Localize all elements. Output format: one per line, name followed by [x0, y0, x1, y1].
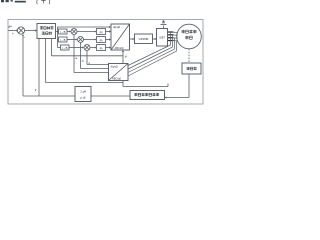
summing junction S2: [78, 37, 84, 43]
wire theta up to controller: [45, 39, 47, 83]
wire vertical branch bus: [57, 27, 59, 48]
wire stub row2: [58, 39, 59, 41]
wire third branch horizontal: [52, 55, 124, 57]
wire stub row3: [58, 47, 61, 49]
wire phase D IGBT to motor: [168, 40, 179, 42]
block function F3: [61, 45, 70, 50]
svg-text:dq/αβ: dq/αβ: [113, 25, 121, 29]
svg-text:PI: PI: [100, 47, 103, 51]
svg-text:(→B: (→B: [62, 46, 68, 50]
wire controller third branch: [51, 39, 53, 56]
wire PI3 to T1: [106, 47, 110, 49]
wire T2 out row b: [81, 68, 109, 70]
svg-text:dq/αβ: dq/αβ: [111, 65, 119, 69]
wire S2 to PI2: [84, 39, 96, 41]
block function F1: [59, 29, 68, 34]
block PI3: [97, 45, 106, 51]
wire speed feedback left: [23, 95, 75, 97]
wire branch speed to controller: [38, 39, 40, 97]
wire current tap 3: [128, 38, 175, 73]
wire S1 to PI1: [77, 31, 95, 33]
block transform T2 ABC to dq: [109, 64, 129, 81]
wire T2 out row c: [87, 64, 109, 66]
wire theta hook: [167, 84, 169, 87]
label phase D: [168, 40, 174, 41]
svg-text:PI: PI: [100, 31, 103, 35]
svg-text:p dt: p dt: [79, 96, 85, 100]
block IGBT inverter: [157, 29, 168, 47]
svg-text:ABC/αβ: ABC/αβ: [112, 77, 122, 81]
svg-text:ABC/αβ: ABC/αβ: [115, 46, 125, 50]
wire PI2 to T1: [106, 39, 110, 41]
wire speed feedback up to S0: [22, 36, 24, 96]
wire F1 to S1: [67, 31, 70, 33]
label phase B: [168, 34, 174, 35]
block PI2: [97, 37, 106, 43]
wire phase C IGBT to motor: [168, 37, 179, 39]
block CPWM: [135, 34, 153, 44]
wire T2 out row a: [74, 72, 109, 74]
svg-text:+: +: [12, 32, 14, 36]
wire CPWM to IGBT: [153, 38, 155, 40]
wire PI1 to T1: [106, 31, 110, 33]
wire theta below T2: [122, 81, 124, 87]
block transform T1 dq to ABC: [111, 24, 130, 50]
svg-text:(→B: (→B: [60, 30, 66, 34]
wire phase A IGBT to motor: [168, 31, 179, 33]
wire current tap 2: [128, 35, 173, 69]
block adaptive controller: [37, 24, 56, 39]
wire theta horizontal right: [123, 86, 168, 88]
dc supply symbol: [161, 21, 167, 29]
svg-text:−: −: [24, 36, 26, 40]
block position and speed detection: [130, 91, 165, 100]
wire encoder to detection: [166, 97, 189, 99]
wire S3 to PI3: [90, 47, 95, 49]
block PI1: [97, 29, 106, 35]
block function F2: [59, 37, 68, 42]
wire T1 to CPWM: [130, 38, 133, 40]
summing junction S1: [71, 29, 77, 35]
wire controller output to bus: [56, 31, 58, 33]
wire phase B IGBT to motor: [168, 34, 179, 36]
wire S3 feedback vertical: [86, 51, 88, 65]
wire theta into T1: [122, 52, 124, 64]
wire current tap 4: [128, 41, 177, 76]
label phase C: [168, 37, 174, 38]
wire current tap 1: [128, 32, 171, 65]
motor BLDC: [177, 24, 202, 49]
svg-text:1 dθ: 1 dθ: [80, 90, 86, 94]
svg-text:(→B: (→B: [60, 38, 66, 42]
summing junction S3: [84, 45, 90, 51]
wire S2 feedback vertical: [80, 43, 82, 69]
wire encoder down: [188, 74, 190, 98]
wire S1 feedback vertical: [73, 35, 75, 73]
wire theta horizontal left: [46, 82, 124, 84]
svg-text:CPWM: CPWM: [139, 37, 149, 41]
wire stub row1: [58, 31, 59, 33]
wire detection output left: [91, 95, 130, 97]
svg-text:PI: PI: [100, 39, 103, 43]
label phase A: [168, 31, 174, 32]
wire top line to transform T1: [58, 26, 110, 28]
caption fragment: [1, 0, 50, 4]
wire input to summing junction S0: [8, 30, 16, 32]
svg-text:IGBT: IGBT: [159, 37, 165, 40]
dashed shaft link motor to encoder: [188, 49, 190, 63]
summing junction S0: [17, 27, 24, 34]
block speed computation: [75, 87, 91, 102]
block optical encoder: [182, 63, 201, 74]
wire S0 to controller: [25, 30, 36, 32]
wire F2 to S2: [67, 39, 76, 41]
figure frame: [8, 20, 203, 105]
wire F3 to S3: [69, 47, 83, 49]
